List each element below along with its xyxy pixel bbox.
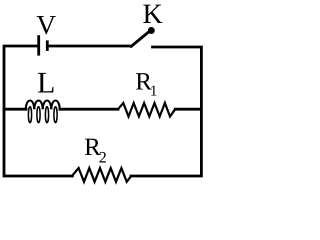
svg-text:L: L bbox=[37, 67, 55, 100]
svg-text:1: 1 bbox=[150, 84, 158, 100]
svg-text:2: 2 bbox=[99, 149, 107, 166]
svg-text:K: K bbox=[143, 0, 163, 30]
svg-text:V: V bbox=[36, 9, 56, 40]
